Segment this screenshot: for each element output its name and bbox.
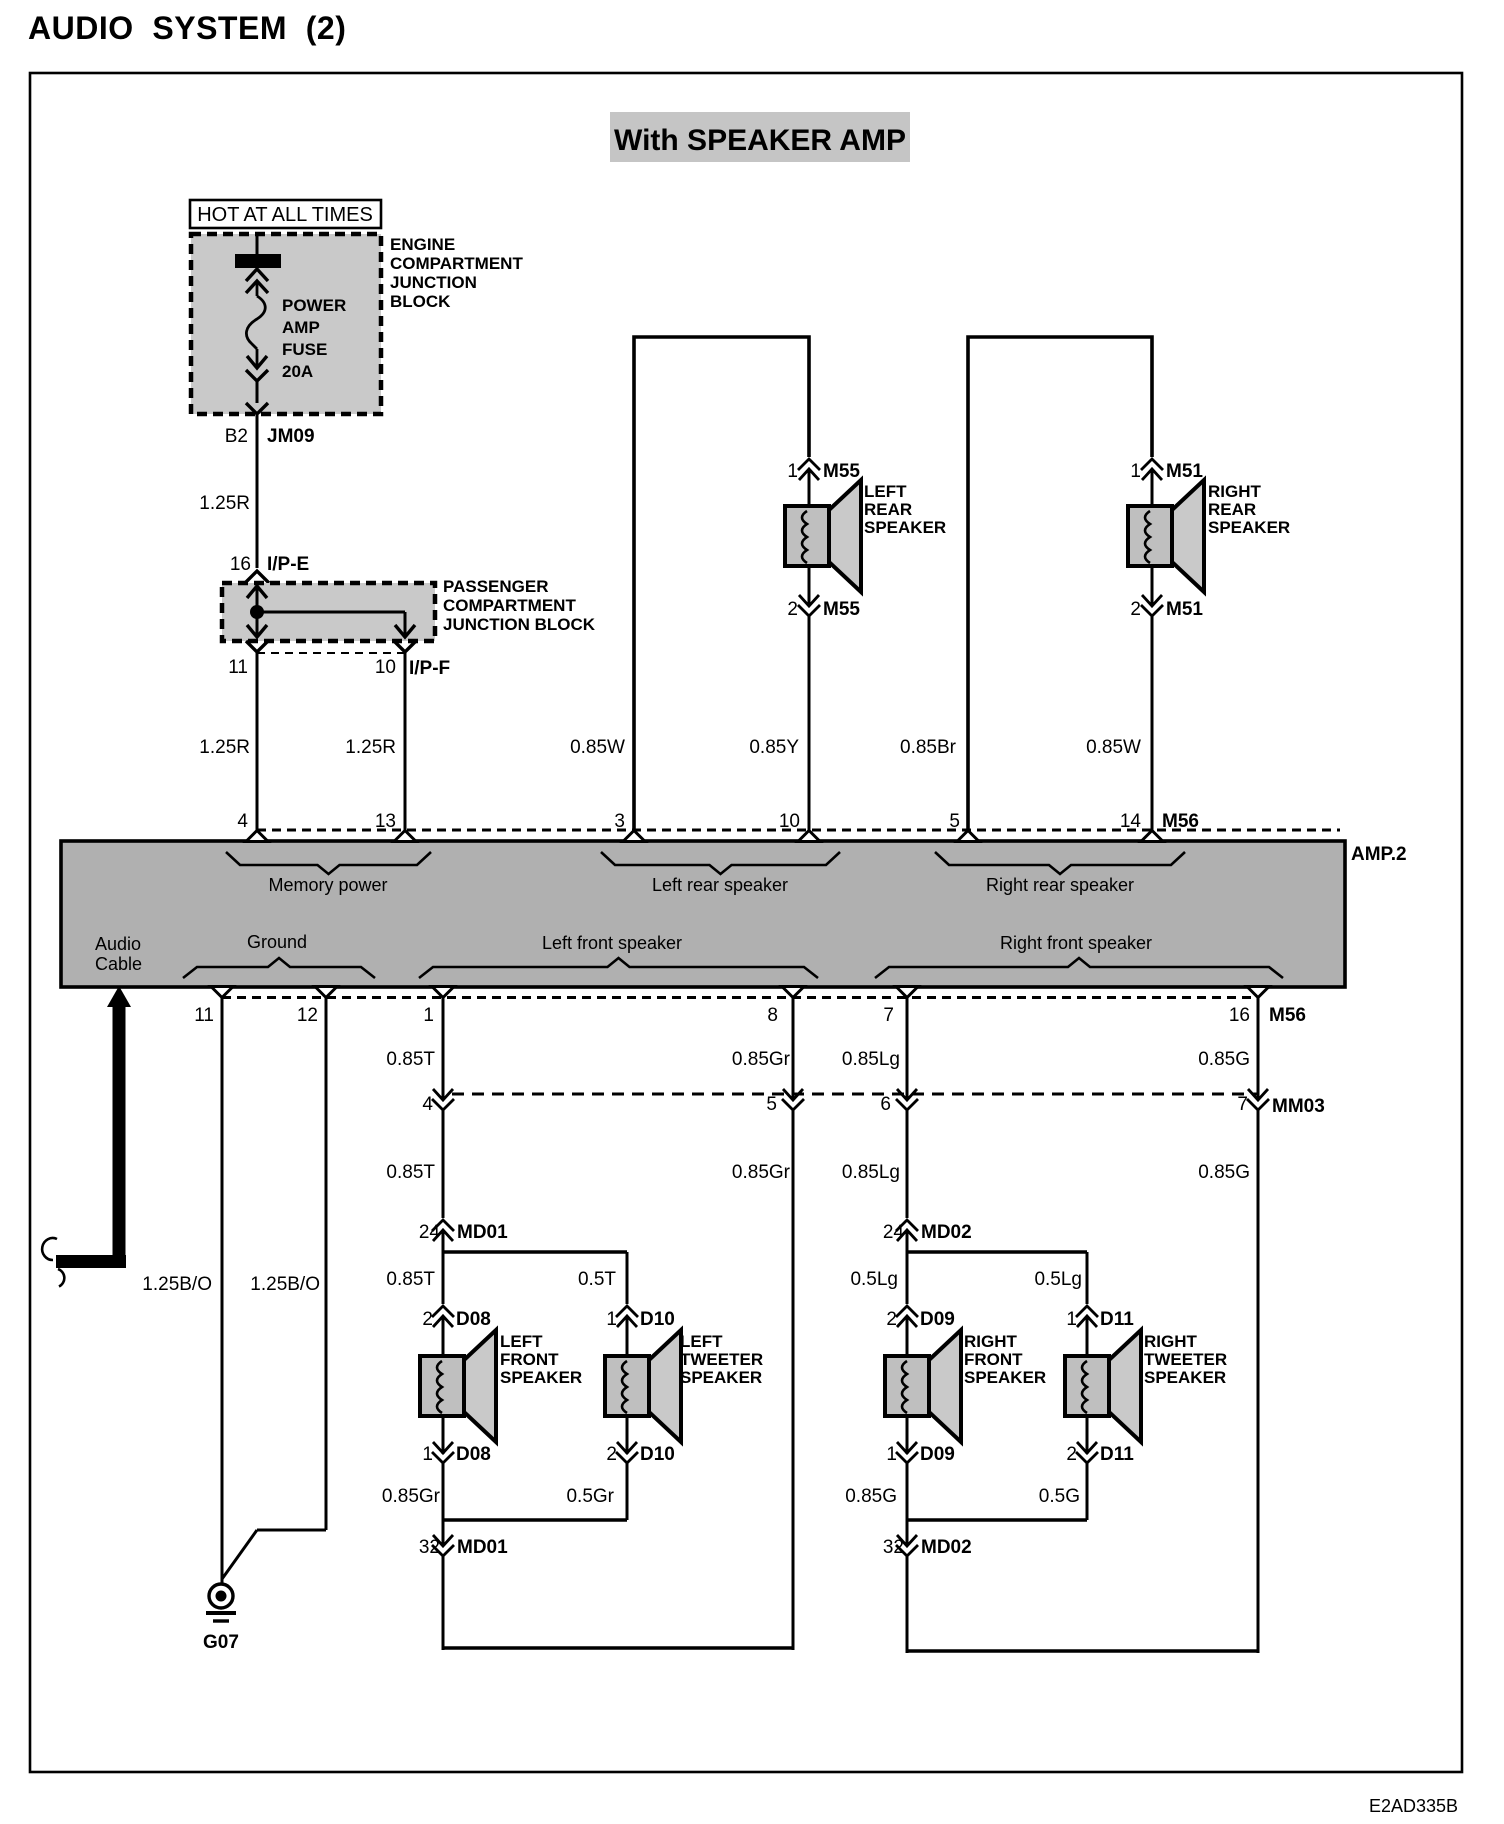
svg-text:2: 2: [886, 1309, 897, 1330]
svg-text:24: 24: [883, 1222, 905, 1243]
svg-text:M51: M51: [1166, 599, 1203, 620]
svg-text:PASSENGER: PASSENGER: [443, 577, 549, 596]
svg-text:D11: D11: [1100, 1309, 1134, 1330]
svg-text:2: 2: [422, 1309, 433, 1330]
svg-text:D09: D09: [920, 1309, 955, 1330]
svg-text:11: 11: [194, 1005, 214, 1026]
svg-text:2: 2: [1066, 1444, 1077, 1465]
svg-text:0.5Lg: 0.5Lg: [850, 1269, 898, 1290]
svg-text:0.85G: 0.85G: [1198, 1162, 1250, 1183]
svg-text:B2: B2: [225, 426, 248, 447]
svg-text:FUSE: FUSE: [282, 340, 327, 359]
svg-text:1.25R: 1.25R: [199, 493, 250, 514]
svg-text:D09: D09: [920, 1444, 955, 1465]
svg-text:10: 10: [375, 657, 396, 678]
svg-text:I/P-E: I/P-E: [267, 554, 309, 575]
svg-text:1.25B/O: 1.25B/O: [250, 1274, 320, 1295]
svg-text:FRONT: FRONT: [500, 1350, 559, 1369]
svg-text:1.25R: 1.25R: [345, 737, 396, 758]
svg-text:2: 2: [787, 599, 798, 620]
svg-text:0.85T: 0.85T: [386, 1162, 435, 1183]
svg-text:1: 1: [422, 1444, 433, 1465]
svg-text:SPEAKER: SPEAKER: [680, 1368, 762, 1387]
svg-text:20A: 20A: [282, 362, 313, 381]
svg-text:1: 1: [1130, 461, 1141, 482]
svg-text:JM09: JM09: [267, 426, 315, 447]
svg-text:0.5G: 0.5G: [1039, 1486, 1080, 1507]
svg-text:Ground: Ground: [247, 932, 307, 952]
svg-text:0.85Lg: 0.85Lg: [842, 1162, 900, 1183]
svg-text:REAR: REAR: [1208, 500, 1256, 519]
svg-text:0.85W: 0.85W: [570, 737, 625, 758]
svg-text:2: 2: [1130, 599, 1141, 620]
svg-text:SPEAKER: SPEAKER: [964, 1368, 1046, 1387]
svg-text:24: 24: [419, 1222, 441, 1243]
svg-text:4: 4: [237, 811, 248, 832]
svg-text:LEFT: LEFT: [680, 1332, 723, 1351]
svg-text:0.85Y: 0.85Y: [749, 737, 799, 758]
svg-text:LEFT: LEFT: [864, 482, 907, 501]
svg-text:HOT AT ALL TIMES: HOT AT ALL TIMES: [197, 204, 373, 226]
svg-text:Audio: Audio: [95, 934, 141, 954]
svg-text:M56: M56: [1269, 1005, 1306, 1026]
svg-text:COMPARTMENT: COMPARTMENT: [443, 596, 576, 615]
svg-text:JUNCTION BLOCK: JUNCTION BLOCK: [443, 615, 596, 634]
svg-text:1: 1: [423, 1005, 434, 1026]
svg-text:1: 1: [787, 461, 798, 482]
svg-text:MD02: MD02: [921, 1537, 972, 1558]
svg-text:Left rear speaker: Left rear speaker: [652, 875, 788, 895]
svg-text:D08: D08: [456, 1309, 491, 1330]
svg-text:0.85Gr: 0.85Gr: [382, 1486, 441, 1507]
svg-text:D08: D08: [456, 1444, 491, 1465]
svg-text:Right rear speaker: Right rear speaker: [986, 875, 1134, 895]
svg-text:32: 32: [883, 1537, 904, 1558]
svg-text:8: 8: [767, 1005, 778, 1026]
svg-text:Left front speaker: Left front speaker: [542, 933, 682, 953]
svg-text:32: 32: [419, 1537, 440, 1558]
svg-text:0.85T: 0.85T: [386, 1049, 435, 1070]
svg-text:M55: M55: [823, 461, 860, 482]
svg-text:16: 16: [1229, 1005, 1250, 1026]
svg-text:0.85G: 0.85G: [845, 1486, 897, 1507]
svg-text:FRONT: FRONT: [964, 1350, 1023, 1369]
svg-text:SPEAKER: SPEAKER: [500, 1368, 582, 1387]
svg-text:E2AD335B: E2AD335B: [1369, 1796, 1458, 1816]
svg-text:6: 6: [880, 1094, 891, 1115]
svg-text:JUNCTION: JUNCTION: [390, 273, 477, 292]
svg-text:2: 2: [606, 1444, 617, 1465]
svg-text:0.85W: 0.85W: [1086, 737, 1141, 758]
svg-text:Cable: Cable: [95, 954, 142, 974]
svg-text:0.85T: 0.85T: [386, 1269, 435, 1290]
svg-text:MD01: MD01: [457, 1537, 508, 1558]
svg-text:7: 7: [883, 1005, 894, 1026]
svg-text:MD02: MD02: [921, 1222, 972, 1243]
svg-text:COMPARTMENT: COMPARTMENT: [390, 254, 523, 273]
svg-text:16: 16: [230, 554, 251, 575]
svg-text:RIGHT: RIGHT: [964, 1332, 1018, 1351]
svg-text:5: 5: [766, 1094, 777, 1115]
svg-text:G07: G07: [203, 1632, 239, 1653]
svg-text:SPEAKER: SPEAKER: [1144, 1368, 1226, 1387]
svg-text:MD01: MD01: [457, 1222, 508, 1243]
svg-text:AUDIO SYSTEM (2): AUDIO SYSTEM (2): [28, 10, 346, 46]
svg-text:D10: D10: [640, 1444, 675, 1465]
svg-text:0.5Lg: 0.5Lg: [1034, 1269, 1082, 1290]
svg-text:4: 4: [422, 1094, 433, 1115]
svg-text:MM03: MM03: [1272, 1096, 1325, 1117]
svg-text:I/P-F: I/P-F: [409, 658, 450, 679]
svg-text:1: 1: [606, 1309, 617, 1330]
svg-text:SPEAKER: SPEAKER: [864, 518, 946, 537]
svg-text:LEFT: LEFT: [500, 1332, 543, 1351]
svg-text:ENGINE: ENGINE: [390, 235, 455, 254]
svg-text:AMP.2: AMP.2: [1351, 844, 1407, 865]
svg-text:REAR: REAR: [864, 500, 912, 519]
svg-text:7: 7: [1237, 1094, 1248, 1115]
svg-text:RIGHT: RIGHT: [1208, 482, 1262, 501]
svg-text:M51: M51: [1166, 461, 1203, 482]
svg-text:0.85G: 0.85G: [1198, 1049, 1250, 1070]
svg-text:0.85Lg: 0.85Lg: [842, 1049, 900, 1070]
svg-text:11: 11: [228, 657, 248, 678]
svg-text:TWEETER: TWEETER: [680, 1350, 763, 1369]
svg-text:1: 1: [886, 1444, 897, 1465]
svg-text:D10: D10: [640, 1309, 675, 1330]
svg-text:0.5Gr: 0.5Gr: [566, 1486, 614, 1507]
svg-text:RIGHT: RIGHT: [1144, 1332, 1198, 1351]
svg-text:With SPEAKER AMP: With SPEAKER AMP: [614, 124, 906, 157]
svg-text:POWER: POWER: [282, 296, 346, 315]
svg-text:0.5T: 0.5T: [578, 1269, 616, 1290]
svg-text:0.85Gr: 0.85Gr: [732, 1049, 791, 1070]
svg-text:1.25B/O: 1.25B/O: [142, 1274, 212, 1295]
svg-text:Right front speaker: Right front speaker: [1000, 933, 1152, 953]
svg-text:BLOCK: BLOCK: [390, 292, 451, 311]
svg-text:Memory power: Memory power: [268, 875, 387, 895]
svg-text:0.85Br: 0.85Br: [900, 737, 957, 758]
svg-text:TWEETER: TWEETER: [1144, 1350, 1227, 1369]
svg-text:0.85Gr: 0.85Gr: [732, 1162, 791, 1183]
svg-text:D11: D11: [1100, 1444, 1134, 1465]
svg-text:AMP: AMP: [282, 318, 320, 337]
svg-text:1.25R: 1.25R: [199, 737, 250, 758]
svg-text:M55: M55: [823, 599, 860, 620]
svg-text:12: 12: [297, 1005, 318, 1026]
svg-text:SPEAKER: SPEAKER: [1208, 518, 1290, 537]
svg-text:1: 1: [1066, 1309, 1077, 1330]
